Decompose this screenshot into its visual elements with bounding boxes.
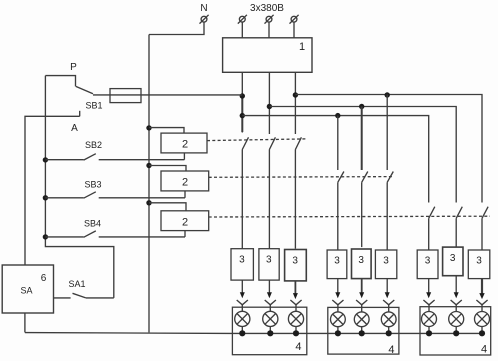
wire coil3 bottom to SB4 — [184, 231, 186, 237]
svg-text:SB3: SB3 — [84, 180, 101, 190]
terminal L3 — [290, 15, 299, 24]
svg-text:1: 1 — [299, 41, 305, 53]
contact K1a blade — [242, 137, 248, 149]
wire K1b to ballast — [268, 150, 270, 249]
wire bus B to K2b — [361, 107, 363, 171]
linkage dashed 1 — [207, 139, 306, 141]
wire K1c to ballast — [294, 150, 296, 249]
contactor coil 2 no.3 — [161, 211, 209, 231]
lamp EL9 — [475, 300, 490, 336]
switch SA1 — [54, 293, 114, 298]
svg-text:3: 3 — [292, 256, 298, 267]
arrow g2-1 — [335, 279, 340, 299]
arrow g1-1 — [240, 280, 245, 298]
lamp group box 4 no.3 — [420, 307, 491, 355]
arrow g1-3 — [293, 281, 298, 299]
input box 1 — [223, 38, 312, 73]
svg-text:3: 3 — [358, 255, 364, 266]
svg-text:3: 3 — [383, 256, 389, 267]
lamp EL4 — [331, 300, 346, 336]
contact K2c blade — [387, 172, 393, 183]
ballast 3 g1-3 — [285, 250, 307, 281]
svg-text:SB1: SB1 — [85, 101, 102, 111]
lamp EL1 — [235, 300, 250, 336]
svg-text:4: 4 — [388, 344, 394, 356]
contact K1c blade — [295, 137, 301, 149]
svg-text:SB2: SB2 — [85, 140, 102, 150]
contact K3a blade — [429, 207, 435, 219]
linkage dashed 2 — [209, 176, 393, 179]
ballast 3 g3-2 — [443, 247, 463, 276]
junction P-SB4 — [43, 234, 48, 239]
wire coil1 bottom to SB2 — [183, 153, 185, 160]
lamp EL6 — [381, 300, 396, 336]
svg-text:3: 3 — [425, 256, 431, 267]
wire K2c to ballast — [386, 182, 388, 250]
junction N-coil3 — [146, 200, 151, 205]
junction N-coil2 — [146, 163, 151, 168]
pushbutton SB3 — [45, 192, 185, 198]
wire K2a to ballast — [337, 182, 339, 250]
junction phase2-bus B — [267, 104, 272, 109]
lamp EL3 — [288, 300, 303, 336]
junction phase3-bus A — [293, 92, 298, 97]
svg-text:SB4: SB4 — [84, 219, 101, 229]
wire K3b to ballast — [455, 218, 457, 247]
junction bus C tap group2 — [335, 113, 340, 118]
wire K3c to ballast — [481, 218, 483, 250]
wire N to coil 1 top — [149, 128, 184, 134]
wire N terminal down and left — [149, 22, 204, 34]
ballast 3 g2-3 — [375, 250, 396, 279]
svg-text:3x380В: 3x380В — [250, 3, 284, 14]
ballast 3 g3-3 — [468, 250, 490, 279]
wire bus C to K2a — [337, 116, 339, 170]
fuse FU1 — [110, 89, 141, 103]
rail P vertical — [45, 76, 113, 298]
svg-text:2: 2 — [182, 139, 188, 151]
contact K2b blade — [362, 172, 368, 183]
svg-text:3: 3 — [266, 255, 272, 266]
return line bottom — [25, 332, 482, 335]
lamp EL5 — [354, 300, 369, 336]
arrow g3-1 — [426, 279, 431, 299]
junction phase1-fuse line — [240, 93, 245, 98]
ballast 3 g1-2 — [259, 249, 279, 280]
ballast 3 g1-1 — [231, 249, 253, 280]
wire bus A to K2c — [386, 95, 388, 171]
junction phase1-bus C — [240, 113, 245, 118]
contactor coil 2 no.2 — [161, 171, 209, 191]
wire SB1 to fuse to phase1 — [93, 94, 242, 96]
junction bus B tap group2 — [359, 104, 364, 109]
wire node A — [25, 116, 80, 265]
svg-text:4: 4 — [295, 341, 301, 353]
wire K1a to ballast — [241, 150, 243, 249]
svg-text:4: 4 — [481, 344, 487, 356]
lamp EL2 — [263, 300, 278, 336]
svg-text:N: N — [200, 3, 207, 14]
svg-text:A: A — [71, 123, 78, 134]
svg-text:SA1: SA1 — [68, 279, 85, 289]
ballast 3 g3-1 — [417, 250, 438, 279]
svg-text:2: 2 — [182, 177, 188, 189]
automation box 6 — [2, 265, 53, 313]
svg-text:3: 3 — [450, 253, 456, 264]
lamp group box 4 no.1 — [232, 307, 306, 355]
bus C (phase 1) — [242, 116, 428, 203]
pushbutton SB1 blade — [76, 86, 93, 93]
arrow g3-3 — [479, 279, 484, 300]
bus B (phase 2) — [269, 107, 456, 203]
wire phase 1 thick segment — [241, 96, 243, 132]
svg-text:3: 3 — [239, 255, 245, 266]
wire K2b to ballast — [361, 182, 363, 247]
svg-text:6: 6 — [41, 273, 47, 284]
contactor coil 2 no.1 — [161, 133, 207, 153]
terminal L1 — [238, 15, 247, 24]
junction bus A tap group2 — [385, 92, 390, 97]
pushbutton SB4 — [45, 231, 185, 237]
contact K1b blade — [269, 137, 275, 149]
junction P-SB3 — [43, 195, 48, 200]
wire L3 to box 1 — [293, 22, 295, 38]
terminal L2 — [265, 15, 274, 24]
wire P to SB1 — [45, 76, 75, 87]
contact K3c blade — [482, 207, 488, 219]
wire neutral rail — [148, 35, 150, 333]
linkage dashed 3 — [209, 215, 490, 218]
ballast 3 g2-2 — [352, 249, 372, 279]
contact K2a blade — [338, 172, 344, 183]
wire N to coil 3 top — [149, 203, 186, 211]
svg-text:3: 3 — [334, 256, 340, 267]
wire box 6 to return line — [24, 313, 26, 332]
wire L2 to box 1 — [268, 22, 270, 38]
lamp EL8 — [449, 300, 464, 336]
lamp group box 4 no.2 — [328, 307, 399, 354]
wire phase 2 from box 1 — [268, 72, 270, 134]
ballast 3 g2-1 — [327, 250, 347, 279]
wire K3a to ballast — [428, 218, 430, 250]
contact K3b blade — [456, 207, 462, 219]
wire phase 1 from box 1 — [241, 72, 243, 132]
arrow g2-2 — [359, 279, 364, 299]
lamp EL7 — [422, 300, 437, 336]
wire phase 3 from box 1 — [294, 72, 296, 134]
junction P-SB2 — [43, 157, 48, 162]
svg-text:3: 3 — [476, 256, 482, 267]
arrow g3-2 — [454, 276, 459, 299]
wire coil2 bottom to SB3 — [184, 191, 186, 198]
pushbutton SB2 — [45, 154, 184, 160]
svg-text:P: P — [70, 62, 77, 73]
wire L1 to box 1 — [241, 22, 243, 38]
wire N to coil 2 top — [149, 166, 186, 172]
svg-text:SA: SA — [20, 286, 32, 296]
svg-text:2: 2 — [182, 216, 188, 228]
arrow g2-3 — [385, 279, 390, 299]
bus A (phase 3) — [295, 95, 482, 203]
junction N-coil1 — [146, 125, 151, 130]
arrow g1-2 — [267, 280, 272, 298]
contact A tick — [79, 111, 81, 117]
terminal N — [200, 15, 209, 24]
